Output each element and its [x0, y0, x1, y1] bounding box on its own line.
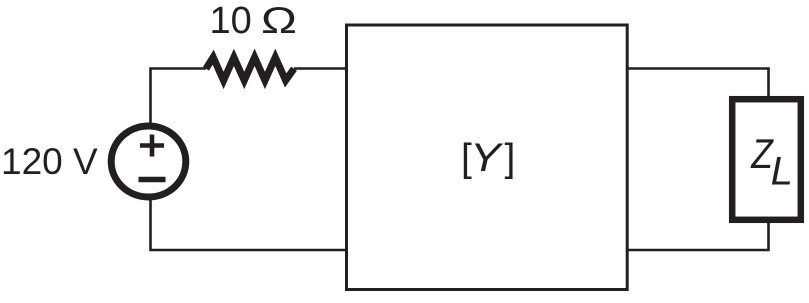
- wire: [Y] box right top to load top: [626, 69, 769, 98]
- svg-text:120 V: 120 V: [1, 141, 98, 182]
- voltage source V1 (circle): [111, 126, 186, 197]
- svg-text:10: 10: [210, 0, 252, 42]
- wire: source top to resistor: [151, 69, 207, 128]
- svg-text:Ω: Ω: [261, 0, 297, 41]
- wire: source bottom to [Y] box left bottom: [151, 198, 347, 250]
- svg-text:L: L: [771, 150, 793, 194]
- wire: resistor to [Y] box left top: [294, 67, 346, 70]
- svg-text:Y: Y: [470, 136, 504, 180]
- two-port network box [Y]: [347, 25, 628, 290]
- svg-text:]: ]: [505, 137, 516, 180]
- load impedance ZL box: [732, 99, 801, 220]
- minus sign of source: [139, 177, 166, 183]
- plus sign of source: [140, 135, 164, 157]
- resistor R (10 ohm) zigzag: [206, 57, 294, 80]
- wire: load bottom to [Y] box right bottom: [626, 222, 769, 250]
